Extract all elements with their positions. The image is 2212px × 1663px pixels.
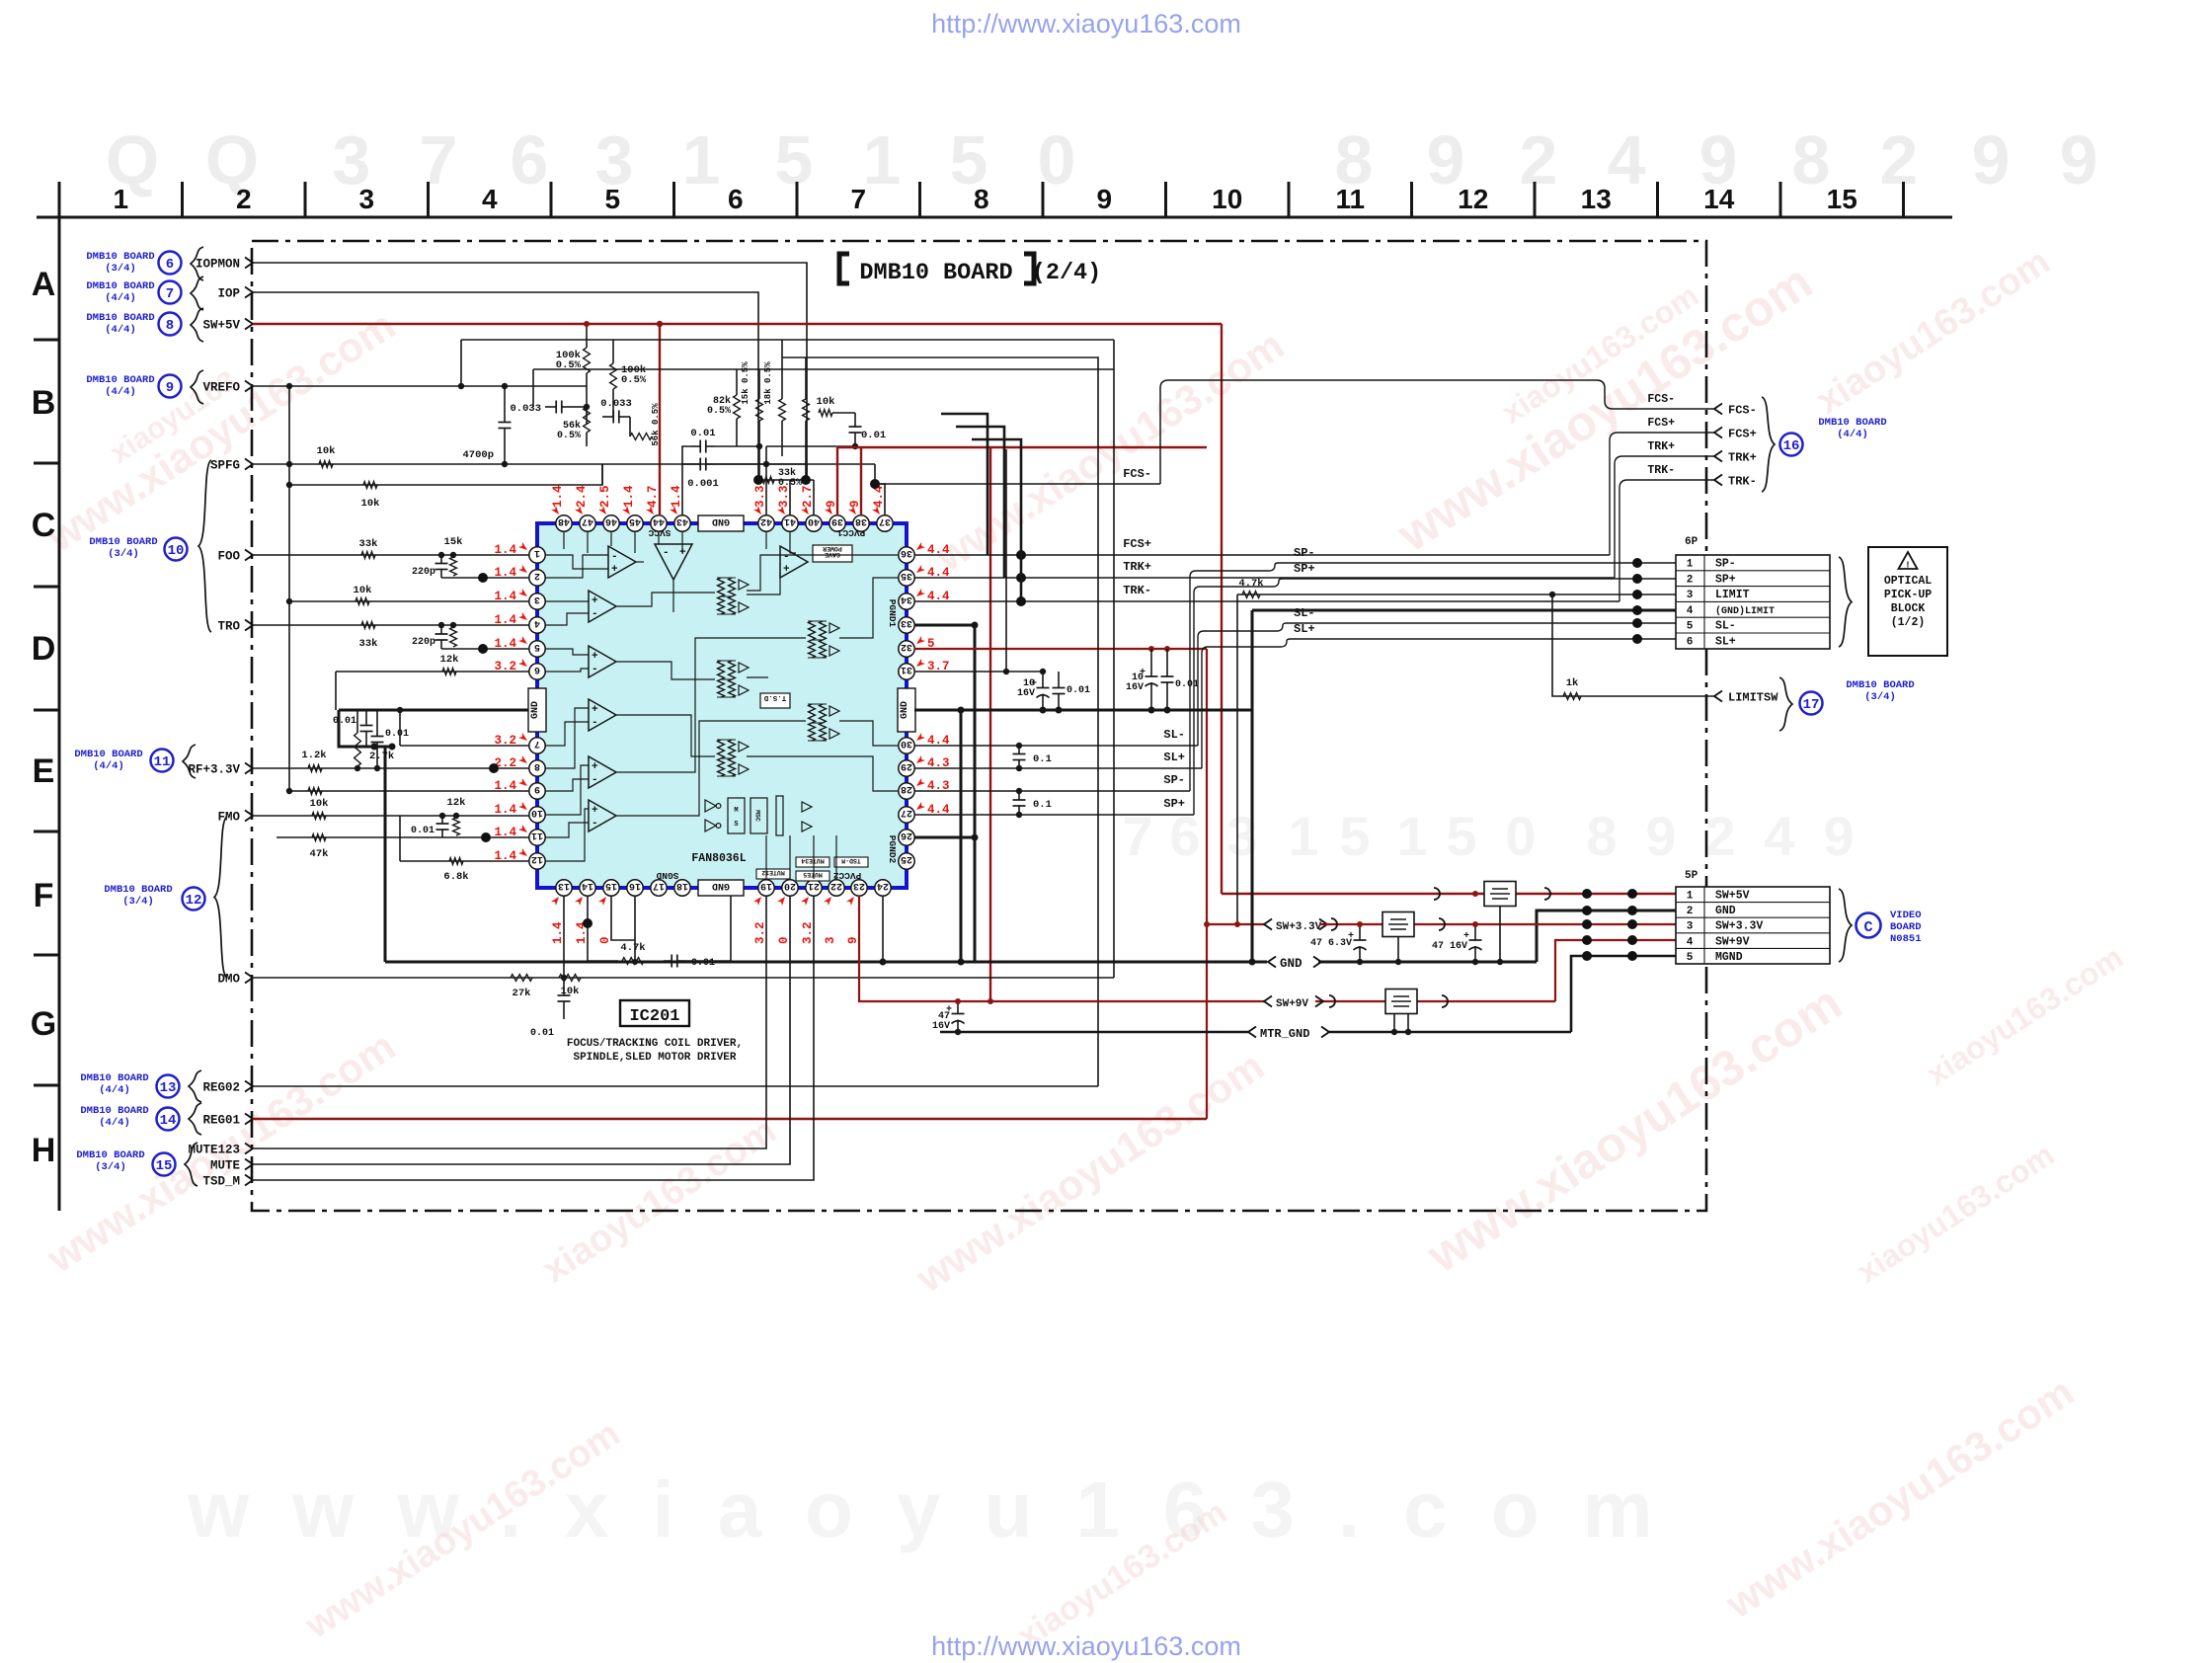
svg-text:PVCC2: PVCC2 <box>832 870 861 881</box>
svg-text:10k: 10k <box>310 798 329 810</box>
red PVCC1 supply y453 <box>837 446 1207 448</box>
svg-text:(4/4): (4/4) <box>99 1084 130 1096</box>
resistor 56k 0.5% rotated <box>630 434 652 440</box>
svg-text:(3/4): (3/4) <box>108 548 139 560</box>
svg-text:47k: 47k <box>310 848 329 860</box>
svg-text:36: 36 <box>901 547 912 558</box>
svg-text:14: 14 <box>160 1113 177 1129</box>
svg-text:DMO: DMO <box>217 973 240 987</box>
IC internal driver cell D1 <box>718 578 725 596</box>
svg-text:BOARD: BOARD <box>1890 921 1922 933</box>
svg-text:15: 15 <box>156 1158 173 1174</box>
wire TSD_M <box>253 896 814 1180</box>
svg-text:SL-: SL- <box>1715 620 1736 633</box>
IC internal op-amp A5 <box>589 699 616 731</box>
svg-text:SP-: SP- <box>1294 546 1315 560</box>
svg-text:2: 2 <box>1880 121 1919 198</box>
svg-text:MUTE123: MUTE123 <box>188 1144 240 1157</box>
svg-text:4: 4 <box>1608 121 1646 198</box>
svg-text:2: 2 <box>1687 906 1694 917</box>
svg-text:10: 10 <box>1212 184 1242 214</box>
svg-text:34: 34 <box>901 594 912 604</box>
svg-text:12: 12 <box>531 853 543 864</box>
svg-text:5: 5 <box>775 121 814 198</box>
svg-text:0.001: 0.001 <box>687 478 719 490</box>
svg-text:G: G <box>31 1005 56 1043</box>
svg-text:PICK-UP: PICK-UP <box>1884 589 1932 601</box>
svg-text:(3/4): (3/4) <box>95 1161 126 1173</box>
svg-text:6: 6 <box>166 257 174 273</box>
svg-text:DMB10 BOARD: DMB10 BOARD <box>1846 679 1914 691</box>
svg-text:!: ! <box>1905 561 1910 571</box>
wire iopmon drop joint <box>806 464 808 480</box>
svg-text:10k: 10k <box>354 585 372 596</box>
svg-text:SW+3.3V: SW+3.3V <box>1276 921 1322 933</box>
svg-text:FOCUS/TRACKING COIL DRIVER,: FOCUS/TRACKING COIL DRIVER, <box>567 1038 743 1050</box>
svg-text:http://www.xiaoyu163.com: http://www.xiaoyu163.com <box>931 9 1241 39</box>
svg-text:5: 5 <box>1687 952 1694 964</box>
svg-text:6: 6 <box>511 121 549 198</box>
svg-text:SW+9V: SW+9V <box>1276 998 1308 1010</box>
svg-text:(4/4): (4/4) <box>1837 429 1868 440</box>
svg-text:5: 5 <box>604 184 620 214</box>
svg-text:1: 1 <box>1687 559 1694 571</box>
svg-text:MUTE: MUTE <box>210 1159 240 1173</box>
svg-text:DMB10 BOARD: DMB10 BOARD <box>76 1149 144 1161</box>
wire pin29 SL+ <box>914 767 1202 769</box>
svg-text:DMB10 BOARD: DMB10 BOARD <box>1818 417 1886 429</box>
svg-text:56k 0.5%: 56k 0.5% <box>651 403 661 446</box>
svg-text:17: 17 <box>1803 697 1820 713</box>
svg-text:SW+5V: SW+5V <box>202 319 240 333</box>
svg-text:-: - <box>592 664 598 675</box>
resistor 10k SPFG <box>319 461 333 468</box>
wire FCS- from cap area <box>874 464 876 484</box>
svg-text:F: F <box>34 877 54 914</box>
svg-text:8: 8 <box>1792 121 1831 198</box>
svg-text:5: 5 <box>534 641 540 652</box>
svg-text:47 16V: 47 16V <box>1432 941 1467 952</box>
svg-text:29: 29 <box>901 760 912 771</box>
svg-text:(4/4): (4/4) <box>93 760 124 772</box>
resistor 15k 0.5% vertical <box>756 399 763 421</box>
wire VREFO <box>253 385 587 387</box>
svg-text:47 6.3V: 47 6.3V <box>1310 938 1352 949</box>
resistor 56k 0.5% <box>584 407 591 433</box>
svg-text:3.2: 3.2 <box>801 921 815 944</box>
wire FMO to pin10 <box>253 815 529 817</box>
svg-text:18k 0.5%: 18k 0.5% <box>763 361 773 405</box>
thick corners from top network <box>941 414 987 555</box>
svg-text:PGND1: PGND1 <box>887 599 898 628</box>
svg-text:2: 2 <box>1687 574 1694 586</box>
SW+3.3V chain to 5P row3 <box>1264 916 1319 933</box>
connector 16 circle and text <box>1780 434 1803 456</box>
svg-text:-: - <box>663 547 670 559</box>
svg-text:0.5%: 0.5% <box>621 374 647 386</box>
svg-text:FMO: FMO <box>217 811 240 825</box>
wire pin15 drop <box>611 896 635 940</box>
wire x1128 riser <box>1113 340 1115 978</box>
svg-text:(2/4): (2/4) <box>1032 260 1102 286</box>
svg-text:8: 8 <box>534 760 540 771</box>
svg-text:6: 6 <box>534 664 540 674</box>
svg-text:43: 43 <box>676 515 688 526</box>
svg-text:+: + <box>783 564 790 576</box>
svg-text:D: D <box>32 630 56 668</box>
IC internal op-amp A6 <box>589 756 616 788</box>
svg-text:C: C <box>32 507 56 544</box>
svg-text:A: A <box>32 266 56 303</box>
svg-text:0.5%: 0.5% <box>707 406 731 417</box>
svg-text:POWER: POWER <box>823 545 842 552</box>
svg-text:13: 13 <box>558 880 570 891</box>
svg-text:10: 10 <box>531 807 543 818</box>
svg-text:4: 4 <box>482 184 498 214</box>
wire REG02 <box>253 1085 1098 1087</box>
svg-text:12k: 12k <box>447 797 466 809</box>
svg-text:1: 1 <box>1288 805 1318 867</box>
svg-text:VIDEO: VIDEO <box>1890 910 1922 921</box>
svg-text:1: 1 <box>1687 891 1694 903</box>
wire RF+3.3V to pin8 <box>253 767 529 769</box>
svg-text:6.8k: 6.8k <box>443 871 468 883</box>
svg-text:10k: 10k <box>817 396 835 408</box>
svg-text:TSD-M: TSD-M <box>841 857 861 864</box>
wire FCS+ riser <box>1610 433 1714 555</box>
wire SW+5V drop to pin44 <box>659 324 661 515</box>
svg-text:2.4: 2.4 <box>575 485 589 508</box>
svg-text:0.01: 0.01 <box>385 729 409 740</box>
capacitor 0.01 top right <box>854 413 856 427</box>
svg-text:1: 1 <box>863 121 902 198</box>
wire FCS- riser and long run <box>1160 380 1714 484</box>
svg-text:2.5: 2.5 <box>598 485 612 508</box>
wire SW+5V red <box>253 323 1222 325</box>
svg-text:33k: 33k <box>359 538 378 550</box>
wire pin41 rise <box>789 480 791 515</box>
svg-text:-: - <box>783 551 790 563</box>
svg-text:DMB10 BOARD: DMB10 BOARD <box>859 260 1012 286</box>
svg-text:SL+: SL+ <box>1715 636 1736 649</box>
svg-text:MUTE12: MUTE12 <box>761 869 785 876</box>
svg-text:31: 31 <box>901 664 912 674</box>
svg-text:9: 9 <box>1096 184 1112 214</box>
svg-text:8: 8 <box>166 318 174 334</box>
svg-text:19: 19 <box>760 880 772 891</box>
svg-text:S: S <box>734 821 738 829</box>
wire pin12 6.8k <box>400 860 529 862</box>
svg-text:11: 11 <box>1335 184 1365 214</box>
svg-text:35: 35 <box>901 570 912 581</box>
svg-text:2: 2 <box>236 184 252 214</box>
svg-text:1.4: 1.4 <box>551 921 565 944</box>
svg-text:C: C <box>1863 919 1872 936</box>
svg-text:9: 9 <box>166 380 174 396</box>
wire DMO <box>253 977 1114 979</box>
wire pin32 red <box>914 648 1207 650</box>
thick gnd wire right of IC <box>914 709 1252 712</box>
IC internal op-amp A8 right <box>780 546 808 578</box>
svg-text:14: 14 <box>582 880 593 891</box>
svg-text:FCS-: FCS- <box>1123 467 1151 481</box>
wire pin35 TRK+ <box>914 577 1615 579</box>
svg-text:47: 47 <box>582 515 593 526</box>
svg-text:24: 24 <box>877 880 889 891</box>
svg-text:+: + <box>592 651 598 663</box>
wire top long y344 <box>461 339 1114 341</box>
caps 10/16V and 0.01 pair A <box>1042 672 1044 688</box>
svg-text:N0851: N0851 <box>1890 933 1922 945</box>
svg-text:MGND: MGND <box>1715 951 1743 964</box>
svg-text:3.2: 3.2 <box>753 921 767 944</box>
svg-text:TRK-: TRK- <box>1728 475 1757 489</box>
wire pin6 12k <box>336 671 529 673</box>
wire pin13 drop to DMO <box>563 896 565 978</box>
svg-text:5: 5 <box>1339 805 1370 867</box>
bead SW+3.3V <box>1382 912 1414 937</box>
capacitor 0.033 second <box>602 416 613 418</box>
gnd chevron label <box>1267 954 1318 971</box>
arc after bead 3.3V <box>1439 918 1445 930</box>
svg-text:0: 0 <box>598 936 612 944</box>
svg-text:-: - <box>611 551 618 563</box>
IC internal op-amp A1 <box>608 546 636 578</box>
svg-text:LIMITSW: LIMITSW <box>1728 691 1778 705</box>
svg-text:PGND2: PGND2 <box>887 835 898 864</box>
svg-text:(1/2): (1/2) <box>1891 616 1926 629</box>
svg-text:10k: 10k <box>317 445 336 457</box>
svg-text:TRK+: TRK+ <box>1123 560 1151 574</box>
svg-text:15: 15 <box>605 880 617 891</box>
capacitor 47 16V second <box>1474 924 1476 940</box>
svg-text:BLOCK: BLOCK <box>1891 602 1926 615</box>
svg-text:30: 30 <box>901 738 912 749</box>
svg-text:6: 6 <box>728 184 744 214</box>
wire TRK- riser <box>1619 480 1714 601</box>
wire IOP <box>253 292 758 480</box>
svg-text:9: 9 <box>534 783 540 794</box>
capacitor 47 16V <box>957 1001 959 1014</box>
svg-text:12: 12 <box>1458 184 1488 214</box>
IC U201 FAN8036L body <box>539 525 905 886</box>
svg-text:SL-: SL- <box>1163 728 1185 742</box>
wire pin27 SP+ <box>914 814 1194 816</box>
wire pin9 <box>289 790 529 792</box>
svg-text:33: 33 <box>901 617 912 628</box>
wire TRK+ riser <box>1615 456 1714 578</box>
IC internal mute logic <box>705 800 716 812</box>
svg-text:46: 46 <box>605 515 617 526</box>
IC internal comparator A2 <box>655 544 692 580</box>
svg-text:DMB10 BOARD: DMB10 BOARD <box>80 1105 148 1117</box>
wire SPFG <box>253 463 807 465</box>
svg-text:TSD_M: TSD_M <box>202 1175 240 1189</box>
wire pin24 drop <box>882 896 884 962</box>
svg-text:3.3: 3.3 <box>753 485 767 508</box>
vertical x1019 from top <box>1005 449 1007 672</box>
svg-text:39: 39 <box>831 515 843 526</box>
svg-text:4.7k: 4.7k <box>1238 578 1263 590</box>
wire pin42 rise <box>765 446 767 515</box>
svg-text:GND: GND <box>900 701 910 719</box>
svg-text:DMB10 BOARD: DMB10 BOARD <box>74 749 142 760</box>
svg-text:(3/4): (3/4) <box>105 263 136 275</box>
svg-text:15: 15 <box>1827 184 1857 214</box>
svg-text:3: 3 <box>1687 921 1694 933</box>
svg-text:2: 2 <box>534 570 540 581</box>
svg-text:27: 27 <box>901 807 912 818</box>
IC internal power save block <box>813 545 852 562</box>
IC internal op-amp A7 <box>589 800 616 831</box>
svg-text:0.01: 0.01 <box>1066 685 1090 696</box>
sheet row boundary ticks <box>34 339 59 342</box>
wire MUTE123 <box>253 896 766 1148</box>
svg-text:9: 9 <box>1645 805 1676 867</box>
watermark faint digits row2 <box>1122 805 1854 867</box>
svg-text:SP-: SP- <box>1715 558 1736 571</box>
svg-text:DMB10 BOARD: DMB10 BOARD <box>86 374 154 386</box>
svg-text:-: - <box>592 774 598 786</box>
IC internal driver cell D3 <box>718 661 725 679</box>
svg-text:SGND: SGND <box>656 870 678 881</box>
svg-text:(GND)LIMIT: (GND)LIMIT <box>1715 605 1775 617</box>
svg-text:5: 5 <box>1687 621 1694 633</box>
sheet left rail <box>58 217 61 1211</box>
svg-text:SVCC: SVCC <box>648 527 671 538</box>
svg-text:+: + <box>592 805 598 817</box>
wire pin28 SP- <box>914 790 1190 792</box>
svg-text:6: 6 <box>1687 637 1694 649</box>
svg-text:48: 48 <box>558 515 570 526</box>
svg-text:12k: 12k <box>440 654 459 666</box>
resistor 10k second <box>363 482 377 489</box>
IC internal op-amp A3 <box>589 591 616 622</box>
svg-text:IOPMON: IOPMON <box>196 258 240 272</box>
svg-text:11: 11 <box>154 754 171 770</box>
svg-text:4: 4 <box>1687 936 1694 948</box>
wire pin3 10k <box>289 600 529 602</box>
resistor 10k horizontal top <box>819 410 832 417</box>
svg-text:4700p: 4700p <box>462 449 494 461</box>
bead SW+5V <box>1434 888 1440 900</box>
svg-text:2.7: 2.7 <box>801 485 815 508</box>
svg-text:GND: GND <box>530 701 541 719</box>
svg-text:1.4: 1.4 <box>551 485 565 508</box>
svg-text:-: - <box>592 717 598 729</box>
svg-text:32: 32 <box>901 641 912 652</box>
wire pin30 SL- <box>914 745 1198 747</box>
connector 17 LIMITSW <box>1714 691 1722 702</box>
svg-text:2: 2 <box>1520 121 1558 198</box>
svg-text:(4/4): (4/4) <box>99 1117 130 1129</box>
IC internal TSD block <box>760 693 790 708</box>
svg-text:1.4: 1.4 <box>622 485 636 508</box>
resistor 100k 0.5% second <box>610 363 617 389</box>
IC GND box top <box>698 515 744 531</box>
wire pin14 drop <box>587 896 589 961</box>
svg-text:8: 8 <box>1586 805 1617 867</box>
svg-text:10: 10 <box>168 543 185 559</box>
IC pin circles bottom row <box>556 880 572 896</box>
svg-text:T.S.D: T.S.D <box>763 693 786 701</box>
svg-text:11: 11 <box>531 830 543 840</box>
svg-text:42: 42 <box>760 515 772 526</box>
svg-text:0.1: 0.1 <box>1033 799 1052 811</box>
svg-text:0.01: 0.01 <box>530 1028 554 1039</box>
svg-text:3: 3 <box>534 594 540 604</box>
svg-text:16V: 16V <box>1017 688 1035 699</box>
svg-text:1: 1 <box>682 121 721 198</box>
svg-text:2: 2 <box>1704 805 1735 867</box>
svg-text:3: 3 <box>824 936 837 944</box>
capacitor 0.01 below DMO <box>563 978 565 995</box>
svg-text:LIMIT: LIMIT <box>1715 589 1750 601</box>
wire pin33 PGND1 thick <box>914 624 975 627</box>
svg-text:0.033: 0.033 <box>510 403 541 415</box>
svg-text:4.7k: 4.7k <box>620 942 645 954</box>
svg-text:20: 20 <box>784 880 796 891</box>
svg-text:13: 13 <box>1581 184 1612 214</box>
connector 5P table <box>1676 887 1830 964</box>
svg-text:0.5%: 0.5% <box>557 431 581 441</box>
svg-text:220p: 220p <box>412 567 435 578</box>
svg-text:FCS+: FCS+ <box>1647 417 1675 430</box>
svg-text:37: 37 <box>879 515 891 526</box>
svg-text:SL+: SL+ <box>1294 622 1315 636</box>
wire VREFO branch vertical <box>288 386 290 791</box>
resistor vertical near pin40 <box>803 399 810 421</box>
IC internal driver cell D5 <box>718 740 725 758</box>
svg-text:DMB10 BOARD: DMB10 BOARD <box>104 884 172 896</box>
svg-text:1.2k: 1.2k <box>301 750 326 761</box>
resistor 1.2k <box>308 765 322 772</box>
svg-text:4.7: 4.7 <box>646 485 660 508</box>
svg-text:0.01: 0.01 <box>333 716 356 727</box>
svg-text:1.4: 1.4 <box>494 803 516 817</box>
svg-text:4: 4 <box>534 617 540 628</box>
svg-text:25: 25 <box>901 853 912 864</box>
wire pin34 TRK- <box>914 600 1619 602</box>
svg-text:15k: 15k <box>444 536 463 548</box>
thick gnd riser x973 <box>960 710 963 962</box>
IC pin circles right column <box>899 547 914 563</box>
svg-text:SW+3.3V: SW+3.3V <box>1715 920 1763 933</box>
resistor 2.7k vertical <box>355 765 360 771</box>
connector C brace <box>1839 889 1852 962</box>
thick gnd riser to 5P row2 <box>1537 911 1676 962</box>
svg-text:16: 16 <box>1783 438 1800 454</box>
svg-text:MSC: MSC <box>754 810 761 822</box>
wire IOPMON <box>253 263 807 480</box>
svg-text:SW+5V: SW+5V <box>1715 890 1750 903</box>
IC201 reference box <box>620 1000 689 1026</box>
svg-text:GND: GND <box>1715 905 1736 917</box>
svg-text:33k: 33k <box>359 638 378 650</box>
svg-text:38: 38 <box>855 515 867 526</box>
svg-text:16V: 16V <box>932 1021 950 1032</box>
wire MTR_GND riser to 5P row5 <box>1571 956 1676 1032</box>
resistor 18k 0.5% vertical <box>779 399 786 421</box>
wire y374 long <box>533 368 1114 370</box>
svg-text:7: 7 <box>166 286 174 302</box>
wire SW+5V vertical to 5P <box>1221 324 1223 894</box>
svg-text:REG02: REG02 <box>202 1081 240 1095</box>
svg-text:TRK-: TRK- <box>1647 464 1675 477</box>
svg-text:SPINDLE,SLED MOTOR DRIVER: SPINDLE,SLED MOTOR DRIVER <box>573 1052 736 1064</box>
svg-text:SP-: SP- <box>1163 773 1185 787</box>
wire SW+5V to 5P row1 <box>1222 893 1676 895</box>
